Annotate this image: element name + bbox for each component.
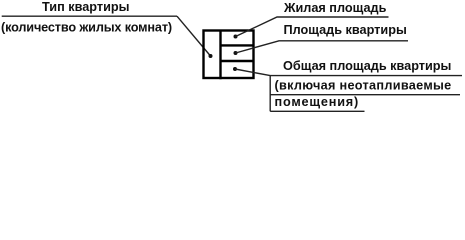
svg-text:помещения): помещения) — [275, 95, 360, 109]
svg-text:Площадь квартиры: Площадь квартиры — [284, 23, 407, 37]
svg-text:(включая неотапливаемые: (включая неотапливаемые — [275, 78, 452, 92]
svg-text:Общая площадь квартиры: Общая площадь квартиры — [283, 59, 451, 73]
svg-text:Тип квартиры: Тип квартиры — [42, 0, 129, 14]
svg-text:Жилая площадь: Жилая площадь — [283, 1, 387, 15]
svg-text:(количество жилых комнат): (количество жилых комнат) — [1, 20, 172, 34]
